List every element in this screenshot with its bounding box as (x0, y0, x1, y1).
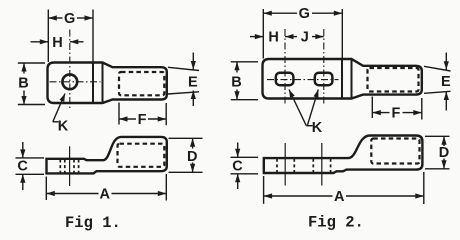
fig2 dimension B extension lines (231, 62, 258, 100)
fig2 dimension J right arrow (312, 36, 324, 38)
svg-text:Fig 2.: Fig 2. (308, 214, 364, 232)
svg-text:K: K (312, 120, 323, 136)
fig2 top view: pad outline (263, 59, 343, 99)
fig1 dimension D extension lines (169, 138, 203, 172)
fig2 top view: hole 2 vertical centerline (323, 29, 325, 106)
fig2 dimension A line and arrows (264, 195, 333, 197)
fig2 side view: hole 2 hidden dashed lines (313, 159, 330, 173)
fig2 side view: hole 1 centerline (284, 143, 286, 186)
fig2 dimension D extension lines (425, 136, 450, 169)
fig2 dimension G line and arrows (263, 12, 342, 14)
fig2 dimension E extension lines (424, 66, 451, 93)
fig1 side view: hole centerline (69, 146, 71, 186)
fig1 side view: hole hidden dashed lines (60, 160, 78, 173)
fig1 dimension F line and arrows (119, 118, 136, 120)
svg-text:C: C (232, 158, 243, 174)
fig1 top view: barrel hidden bore dashed rect (119, 72, 164, 95)
svg-text:Fig 1.: Fig 1. (65, 214, 121, 232)
fig1 dimension E line and arrows (192, 53, 194, 70)
fig2 side view: lug outline (264, 136, 423, 174)
svg-text:F: F (138, 112, 147, 128)
fig2 top view: hole 1 vertical centerline (284, 29, 286, 106)
fig2 top view: barrel hidden bore dashed rect (368, 68, 419, 92)
fig2 dimension C line and arrows (237, 143, 239, 158)
svg-text:G: G (64, 11, 75, 27)
fig2 side view: hole 1 hidden dashed lines (277, 159, 294, 173)
fig2 dimension F line and arrows (372, 112, 389, 114)
fig1 dimension H line and arrows (31, 41, 49, 43)
svg-text:B: B (231, 74, 241, 90)
fig1 dimension G extension lines (48, 10, 93, 63)
fig2 top view: pad right edge line (341, 59, 343, 99)
fig2 dimension D line and arrows (443, 136, 445, 146)
fig1 dimension D line and arrows (192, 138, 194, 148)
svg-text:E: E (441, 74, 451, 90)
fig1 dimension F extension lines (119, 103, 166, 126)
fig1 dimension A line and arrows (46, 193, 98, 195)
svg-text:H: H (268, 30, 278, 46)
svg-text:H: H (52, 35, 62, 51)
svg-text:A: A (334, 189, 345, 205)
fig1 top view: pad outline (48, 63, 94, 104)
fig2 side view: barrel hidden bore dashed rect (371, 139, 419, 164)
svg-text:G: G (299, 6, 310, 22)
fig1 top view: hole circle (62, 74, 77, 89)
fig1 top view: vertical centerline (69, 30, 71, 110)
fig1 dimension B line and arrows (23, 63, 25, 74)
fig1 dimension A extension lines (46, 174, 166, 201)
fig2 dimension F extension lines (372, 97, 422, 120)
svg-text:B: B (18, 76, 28, 92)
fig2 dimension J left arrow (285, 36, 297, 38)
svg-text:C: C (17, 159, 28, 175)
fig1 side view: barrel hidden bore dashed rect (118, 144, 165, 167)
fig2 dimension A extension lines (264, 172, 424, 204)
fig2 top view: hole 1 slot (276, 73, 294, 86)
svg-text:F: F (391, 106, 400, 122)
svg-text:J: J (301, 30, 309, 46)
fig2 top view: horizontal centerline (267, 79, 339, 81)
fig1 dimension B extension lines (18, 63, 45, 105)
fig1 top view: neck second edge line (102, 63, 104, 104)
svg-text:D: D (439, 145, 449, 161)
svg-text:E: E (188, 75, 198, 91)
svg-text:K: K (58, 119, 69, 135)
fig1 dimension C extension lines (16, 158, 45, 174)
fig1 dimension E extension lines (168, 67, 200, 94)
svg-text:D: D (187, 149, 197, 165)
fig2 top view: neck second edge line (351, 59, 353, 99)
fig2 dimension H line and arrow (250, 36, 263, 38)
fig2 holes leader lines K (289, 90, 306, 126)
fig1 hole leader line K (53, 94, 65, 122)
svg-text:A: A (100, 186, 111, 202)
fig2 top view: hole 2 slot (315, 73, 333, 86)
fig1 dimension C line and arrows (22, 142, 24, 158)
fig1 top view: neck and barrel outline (93, 63, 167, 104)
fig1 top view: horizontal centerline (50, 81, 101, 83)
fig2 top view: neck and barrel outline (342, 59, 422, 99)
fig2 dimension G extension lines (263, 9, 342, 59)
fig2 dimension C extension lines (231, 157, 259, 174)
fig1 side view: lug outline (47, 137, 167, 174)
fig2 dimension B line and arrows (236, 62, 238, 73)
fig1 top view: pad right edge line (92, 63, 94, 104)
fig2 side view: hole 2 centerline (321, 143, 323, 186)
fig1 dimension G line and arrows (48, 17, 93, 19)
fig2 dimension E line and arrows (445, 53, 447, 70)
